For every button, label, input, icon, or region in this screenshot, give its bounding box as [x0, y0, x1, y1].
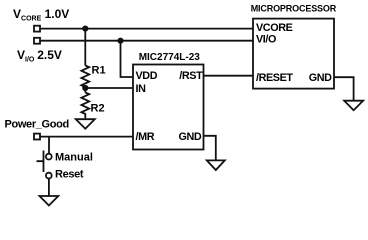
label VCORE 1.0V: [13, 7, 69, 23]
wire junction to R2: [84, 87, 86, 93]
pin VCORE uP: [256, 22, 293, 34]
label Manual: [55, 152, 93, 164]
label R2: [91, 103, 105, 115]
switch SW1 manual reset contact top: [46, 154, 52, 160]
svg-text:VCORE: VCORE: [256, 22, 293, 34]
op-amp U1 MIC2774 body: [133, 65, 204, 150]
svg-text:MIC2774L-23: MIC2774L-23: [139, 52, 201, 63]
svg-text:MICROPROCESSOR: MICROPROCESSOR: [251, 3, 337, 13]
resistor R2: [81, 93, 89, 119]
wire VCORE rail: [40, 28, 253, 30]
svg-text:VCORE 1.0V: VCORE 1.0V: [13, 7, 69, 23]
svg-text:/RESET: /RESET: [256, 72, 293, 84]
switch SW1 manual reset contact bottom: [46, 173, 52, 179]
label MIC2774L-23: [139, 52, 201, 63]
junction dot on VCORE rail: [83, 26, 87, 30]
wire /RST to /RESET: [204, 75, 254, 77]
pin VI/O uP: [256, 34, 276, 46]
pin /MR: [136, 131, 155, 143]
label VI/O 2.5V: [17, 48, 62, 64]
switch SW1 actuator: [37, 151, 44, 173]
microprocessor U2 body: [253, 19, 334, 89]
svg-text:Reset: Reset: [55, 168, 84, 180]
label MICROPROCESSOR: [251, 3, 337, 13]
svg-text:R2: R2: [91, 103, 105, 115]
junction dot on VI/O rail: [118, 39, 122, 43]
svg-text:Power_Good: Power_Good: [5, 118, 69, 130]
svg-text:/RST: /RST: [179, 70, 203, 82]
node VCORE terminal square: [34, 26, 40, 32]
node Power_Good terminal square: [34, 134, 40, 140]
svg-text:R1: R1: [92, 65, 106, 77]
ground below MIC2774 GND: [207, 160, 225, 170]
svg-text:GND: GND: [179, 131, 202, 143]
svg-text:GND: GND: [309, 72, 332, 84]
wire microprocessor GND to ground: [334, 77, 354, 101]
wire Power_Good to /MR: [40, 136, 133, 138]
wire down to switch: [48, 137, 50, 154]
wire MIC GND to ground: [204, 136, 216, 161]
wire VI/O rail: [40, 40, 253, 42]
pin /RST: [179, 70, 203, 82]
pin IN: [136, 83, 147, 95]
ground below switch: [40, 196, 59, 206]
ground below microprocessor GND: [344, 101, 363, 111]
wire switch to ground: [48, 179, 50, 197]
svg-text:VI/O: VI/O: [256, 34, 276, 46]
svg-text:IN: IN: [136, 83, 147, 95]
svg-text:VDD: VDD: [136, 70, 158, 82]
junction dot R1/R2 node: [83, 86, 87, 90]
svg-text:/MR: /MR: [136, 131, 155, 143]
pin GND MIC: [179, 131, 202, 143]
pin /RESET uP: [256, 72, 293, 84]
pin GND uP: [309, 72, 332, 84]
wire from VCORE rail down to R1: [84, 29, 86, 66]
label R1: [92, 65, 106, 77]
wire R1/R2 node to IN pin: [85, 87, 133, 89]
label Power_Good: [5, 118, 69, 130]
pin VDD: [136, 70, 158, 82]
resistor R1: [81, 66, 89, 87]
wire from VI/O rail to VDD pin: [121, 41, 134, 77]
label Reset: [55, 168, 84, 180]
ground below R2: [76, 119, 95, 129]
svg-text:VI/O 2.5V: VI/O 2.5V: [17, 48, 62, 64]
svg-text:Manual: Manual: [55, 152, 93, 164]
node VI/O terminal square: [34, 38, 40, 44]
